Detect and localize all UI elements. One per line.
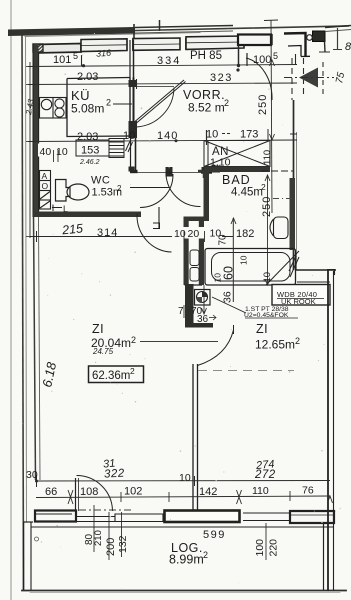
door posts black blocks <box>129 80 137 87</box>
window band 334 section top/bottom <box>81 39 127 52</box>
svg-text:322: 322 <box>104 467 125 480</box>
bottom dim line B (66/108/102/142/110/76) <box>36 496 330 498</box>
svg-text:334: 334 <box>157 55 181 67</box>
annotation text block with box <box>272 285 330 306</box>
loggia inner top line <box>31 526 333 528</box>
svg-text:2.46.2: 2.46.2 <box>79 159 100 166</box>
total area box <box>89 366 144 383</box>
entrance door arc <box>246 58 272 100</box>
svg-text:BAD: BAD <box>222 173 251 187</box>
svg-text:7: 7 <box>178 306 184 317</box>
svg-text:60: 60 <box>222 266 236 280</box>
svg-text:2.03: 2.03 <box>77 71 98 83</box>
svg-text:2: 2 <box>295 336 300 346</box>
svg-text:12.65m: 12.65m <box>255 338 295 352</box>
svg-text:76: 76 <box>302 485 314 497</box>
svg-text:5: 5 <box>73 51 78 61</box>
svg-text:110: 110 <box>262 150 273 165</box>
svg-text:220: 220 <box>268 539 280 557</box>
svg-text:24.75: 24.75 <box>92 347 114 356</box>
svg-text:10: 10 <box>206 129 218 141</box>
dark pier band between doors <box>165 511 240 523</box>
loggia door arc (left ZI) <box>77 476 113 512</box>
entry dashed vertical lines <box>292 58 323 100</box>
entrance niche walls top right <box>272 33 310 57</box>
thick divider wall segment (black) <box>185 284 194 327</box>
182 dim <box>232 218 234 302</box>
svg-text:10: 10 <box>239 255 249 265</box>
top dim line 2 (2.03 / 323) <box>28 83 297 85</box>
svg-text:215: 215 <box>60 221 83 237</box>
svg-text:8.99m: 8.99m <box>169 553 204 567</box>
left outer wall thin double (below WC to bottom wall) <box>34 217 36 480</box>
svg-text:2: 2 <box>117 184 122 193</box>
window band right section to PH <box>186 36 244 49</box>
svg-text:110: 110 <box>252 485 269 497</box>
left door threshold to loggia <box>76 516 115 518</box>
door posts little L marks <box>129 166 221 177</box>
diagonal slash over tub right <box>266 251 299 285</box>
svg-text:2: 2 <box>106 98 111 108</box>
shaft wall A (corridor side) <box>184 218 189 286</box>
svg-text:2: 2 <box>224 98 229 108</box>
svg-text:66: 66 <box>45 486 57 498</box>
svg-text:100: 100 <box>253 54 271 66</box>
svg-text:314: 314 <box>97 227 118 239</box>
svg-text:8.52 m: 8.52 m <box>188 101 225 115</box>
svg-text:108: 108 <box>80 486 98 498</box>
svg-text:250: 250 <box>261 196 273 217</box>
svg-text:2: 2 <box>131 335 136 345</box>
WC bottom thick wall <box>33 212 141 218</box>
svg-text:142: 142 <box>199 486 217 498</box>
left vertical dim line <box>29 62 31 238</box>
window band middle section <box>133 38 180 50</box>
radiator + 1.53 box under KU <box>76 139 133 158</box>
AN closet with X cross <box>204 141 270 167</box>
svg-text:182: 182 <box>236 228 254 240</box>
KU room box <box>67 40 134 137</box>
right room top wall double <box>296 269 336 271</box>
svg-text:ZI: ZI <box>256 322 268 336</box>
small vertical near right edge <box>337 28 339 49</box>
window section <box>115 514 163 522</box>
door stop detail in corridor <box>158 207 160 229</box>
wall from KU door down to corridor doors <box>130 138 132 171</box>
svg-text:173: 173 <box>240 129 258 141</box>
left outer wall (thick, top part) <box>33 44 39 217</box>
svg-text:210: 210 <box>93 530 104 546</box>
right wall of VORR/BAD (to stairwell) <box>293 100 295 270</box>
black pier square top right <box>313 31 326 42</box>
KU door leaf diagonal into VORR <box>132 80 186 127</box>
svg-text:323: 323 <box>210 72 233 84</box>
washbasin on right wall <box>270 217 288 239</box>
border frame left inner <box>26 37 27 522</box>
svg-text:62.36m: 62.36m <box>92 370 130 382</box>
border frame inner top <box>25 33 200 37</box>
svg-text:ZI: ZI <box>92 322 104 336</box>
window band outline 101.5 section <box>35 44 81 54</box>
svg-text:10: 10 <box>123 130 135 142</box>
window divider double <box>126 39 128 51</box>
wall above corridor doors (VORR bottom) <box>130 170 212 174</box>
svg-text:100: 100 <box>254 539 266 557</box>
svg-text:599: 599 <box>203 529 226 541</box>
svg-text:10: 10 <box>179 472 191 484</box>
right room door arc <box>198 330 234 366</box>
leader line between labels <box>140 341 218 343</box>
loggia left wall double <box>23 522 25 590</box>
toilet <box>56 180 90 202</box>
right door threshold <box>243 513 290 521</box>
shaft cap <box>184 217 210 222</box>
thick window box near PH85 <box>238 35 271 46</box>
svg-text:PH 85: PH 85 <box>190 50 222 62</box>
svg-text:8: 8 <box>345 41 351 53</box>
svg-text:36: 36 <box>222 291 234 303</box>
corridor double door arcs <box>130 172 212 174</box>
upper exterior wall band top-left <box>8 27 135 36</box>
top dim line 1 <box>28 65 297 67</box>
right outer wall double <box>327 270 329 591</box>
diagonal leader from washing machine area to annotation <box>212 297 246 313</box>
svg-text:20: 20 <box>188 228 200 240</box>
kitchen counter with cooktop circles <box>40 98 67 119</box>
bottom wall right section <box>290 511 334 523</box>
svg-text:A: A <box>42 171 48 181</box>
dash-dot sill line left door <box>79 509 131 511</box>
svg-text:L: L <box>63 204 68 214</box>
svg-text:316: 316 <box>96 48 112 59</box>
bottom dim line A (322 / 272) <box>36 480 330 483</box>
entry direction arrow (filled) <box>299 68 318 88</box>
leader line from 5.08m2 to door <box>113 103 132 105</box>
washing machine <box>195 290 211 306</box>
top-left corner hatched wall <box>33 44 43 52</box>
right vertical dim line (250/110/250) <box>271 20 272 213</box>
dashed shaft lines right of AN <box>261 170 293 172</box>
svg-text:10: 10 <box>262 272 273 283</box>
bathtub <box>205 249 296 286</box>
top wall / window band left section (KU + VORR windows) <box>35 36 244 53</box>
svg-text:101: 101 <box>53 54 71 66</box>
border frame bottom <box>22 590 346 592</box>
svg-text:2: 2 <box>130 366 135 376</box>
svg-text:2: 2 <box>203 550 208 560</box>
shaft walls continue beside tub <box>185 284 203 286</box>
svg-text:2: 2 <box>261 182 266 192</box>
mid dim line (140 | 10 -- 173) <box>28 140 297 142</box>
pier leg down <box>324 42 327 53</box>
svg-text:O: O <box>42 181 49 191</box>
WC fixtures column (A O hatch boxes) <box>40 171 51 210</box>
small circle beside pier <box>307 35 313 41</box>
border frame left outer <box>22 33 24 590</box>
wall below AN step <box>204 172 210 217</box>
svg-text:5: 5 <box>273 51 278 61</box>
darker blobs on wall <box>290 178 296 250</box>
svg-text:132: 132 <box>117 535 129 553</box>
top wall right double line to edge <box>325 26 351 28</box>
shaft inner rounded openings <box>190 250 199 266</box>
divider wall between rooms (thin double, lower part) <box>192 364 194 511</box>
svg-text:200: 200 <box>105 538 117 556</box>
svg-text:102: 102 <box>124 486 142 498</box>
svg-text:272: 272 <box>254 469 276 481</box>
paper edge shadow left <box>10 0 12 600</box>
border frame outer top <box>22 26 349 33</box>
loggia right wall double <box>323 523 325 590</box>
svg-text:153: 153 <box>81 145 99 157</box>
svg-text:WC: WC <box>91 175 110 187</box>
215/314 dim line <box>30 236 233 238</box>
diagonal slash over right wall area <box>289 256 299 277</box>
svg-text:30: 30 <box>26 469 38 481</box>
faint dashed line in right room <box>198 370 294 372</box>
svg-text:4.45m: 4.45m <box>231 187 263 199</box>
svg-text:250: 250 <box>257 94 269 115</box>
loggia vertical dims <box>93 505 95 552</box>
svg-text:5.08m: 5.08m <box>71 102 104 116</box>
svg-text:70: 70 <box>218 234 229 246</box>
svg-text:36: 36 <box>197 314 209 325</box>
bottom wall left section <box>35 511 163 522</box>
svg-text:40: 40 <box>40 146 52 158</box>
AN bottom wall <box>204 167 270 173</box>
shaft wall B (BAD side) <box>199 217 204 285</box>
